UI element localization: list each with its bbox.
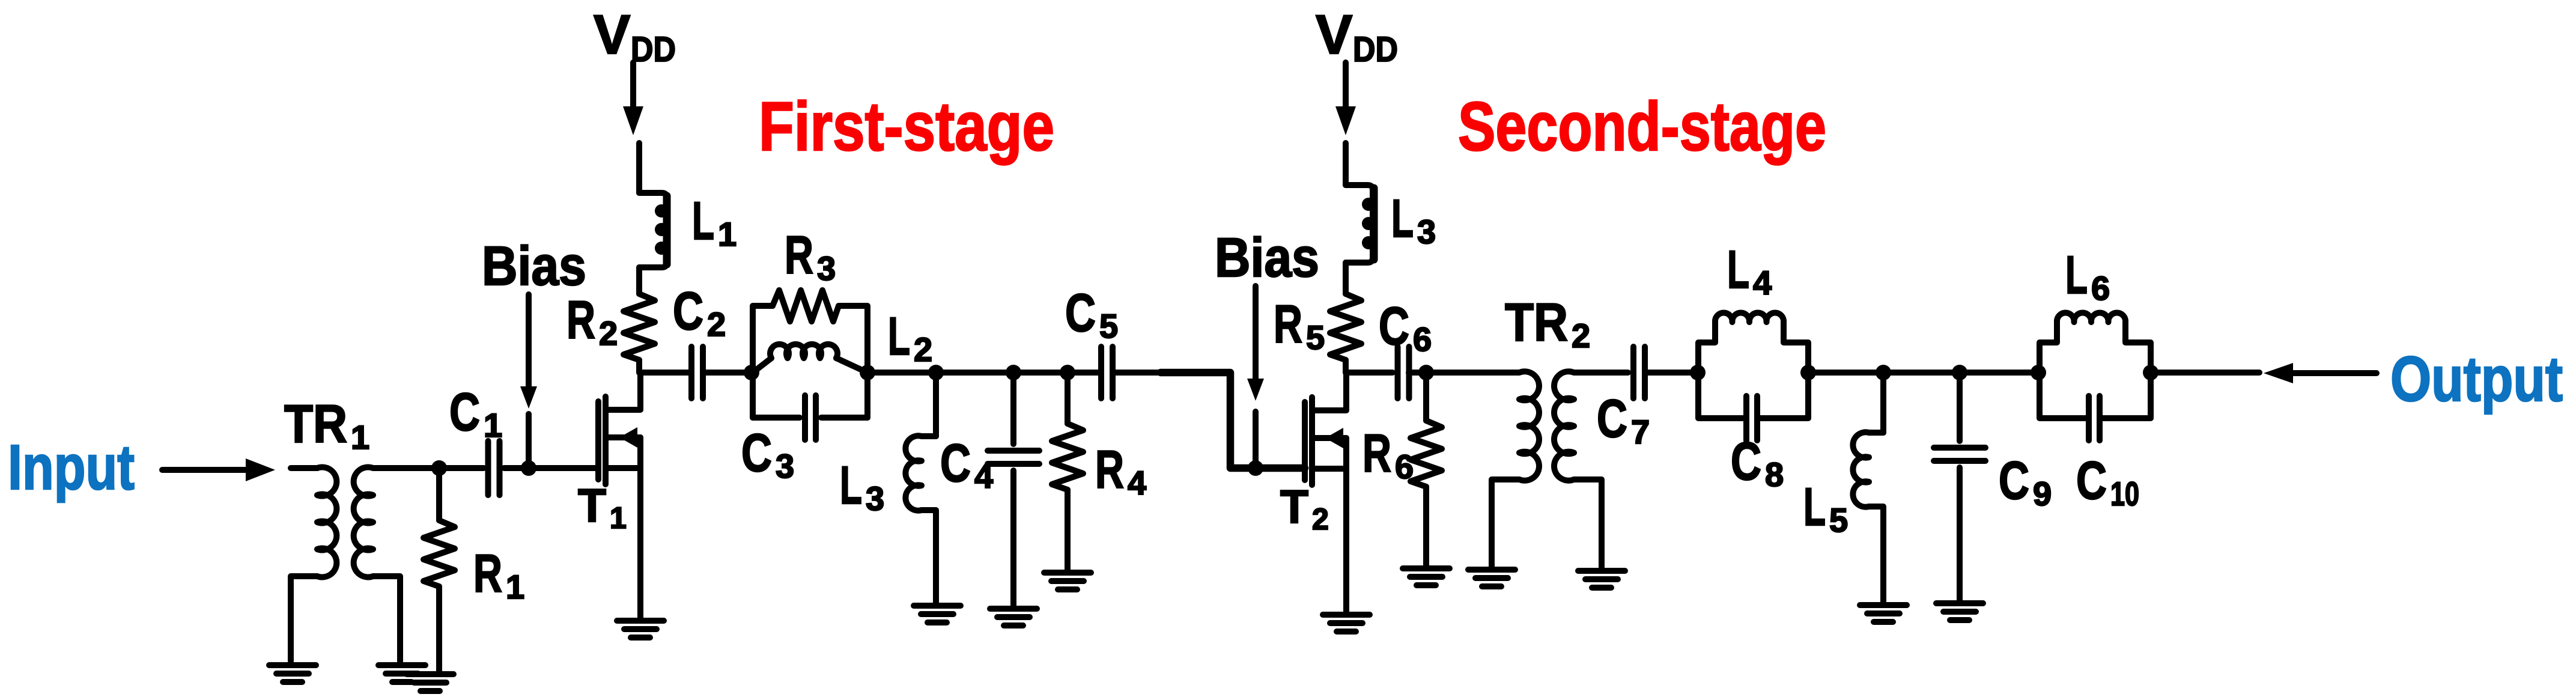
ground L5 [1860,605,1907,622]
svg-text:3: 3 [776,447,794,485]
svg-text:5: 5 [1306,318,1325,356]
svg-text:R: R [473,543,502,603]
node C9 junction [1952,365,1967,380]
inductor L1 label [692,190,737,253]
svg-text:1: 1 [351,418,369,456]
capacitor C2 [691,347,703,398]
svg-text:3: 3 [817,249,836,287]
inductor L6 label [2065,245,2110,307]
tank3 bottom right [2103,373,2151,418]
input arrow [162,458,275,481]
wire L1 to R2 [636,267,642,294]
capacitor C6 label [1379,296,1432,358]
capacitor C10 [2089,396,2100,440]
svg-text:9: 9 [2033,475,2052,513]
bias arrow 1 [520,294,537,409]
svg-text:3: 3 [1417,213,1436,251]
capacitor C7 label [1597,388,1650,451]
svg-text:L: L [1727,239,1749,299]
transformer TR2 primary winding [1492,371,1539,567]
resistor R3 [773,290,839,321]
inductor L4 [1715,313,1784,322]
capacitor C5 [1101,347,1113,398]
svg-text:1: 1 [610,501,627,535]
resistor R6 label [1362,423,1414,485]
node bias junction 1 [521,460,536,476]
wire VDD1 to L1 [636,143,642,193]
svg-text:First-stage: First-stage [759,88,1054,165]
transformer TR1 label [284,394,369,456]
ground TR1 primary [269,665,316,682]
ground L3 shunt [914,606,961,622]
resistor R2 label [567,290,618,352]
svg-text:L: L [692,190,714,251]
ground TR1 secondary [378,665,425,682]
wire bias stub 2 [1253,412,1259,468]
svg-text:6: 6 [1395,448,1414,485]
svg-text:1: 1 [506,568,524,606]
node tank2 right [1800,365,1816,380]
svg-text:C: C [1731,431,1761,491]
svg-text:Bias: Bias [482,236,586,297]
svg-text:L: L [840,455,862,515]
svg-text:V: V [594,4,630,65]
svg-text:C: C [449,382,480,442]
label Second-stage [1458,88,1826,165]
svg-text:1: 1 [718,215,737,253]
ground TR2 primary [1468,570,1515,586]
transistor T2 [1305,373,1346,612]
tank3 frame left [2040,322,2057,373]
node R4 junction [1060,365,1075,380]
svg-text:DD: DD [1353,30,1398,69]
transformer TR1 secondary winding [354,467,439,662]
capacitor C1 label [449,382,502,444]
wire VDD2 to L3 [1343,143,1349,185]
power VDD1 label [594,4,676,69]
svg-text:C: C [1597,388,1627,448]
resistor R5 label [1274,294,1325,356]
node A junction [431,460,447,476]
svg-text:C: C [1065,282,1096,342]
svg-text:V: V [1316,4,1352,65]
tank1 bottom right wire [821,415,867,421]
wire tank2 to tank3 [1808,370,2038,376]
wire C2 to tank1 [706,370,752,376]
wire drain rail 1 [639,370,688,376]
tank3 bottom left [2040,373,2086,418]
svg-text:C: C [673,281,703,341]
svg-text:C: C [2076,450,2107,510]
transformer TR2 secondary winding [1554,371,1628,568]
resistor R1 label [473,543,524,606]
node tank1 right [860,365,875,380]
svg-text:5: 5 [1099,307,1118,345]
capacitor C1 [488,441,500,495]
svg-text:2: 2 [707,305,726,343]
tank2 frame left [1698,322,1715,373]
ground C9 [1936,603,1983,620]
inductor L4 label [1727,239,1772,302]
svg-text:Second-stage: Second-stage [1458,88,1826,165]
inductor L3 shunt label [840,455,884,517]
svg-text:TR: TR [1505,292,1568,352]
transistor T1 label [578,479,627,535]
ground R4 [1044,573,1091,589]
svg-text:3: 3 [866,479,884,517]
wire C6 to TR2 [1409,370,1514,376]
svg-text:C: C [741,422,772,482]
ground T2 [1323,615,1370,632]
node C4 junction [1006,365,1021,380]
svg-text:7: 7 [1631,413,1650,451]
node tank1 left [744,365,759,380]
svg-text:R: R [567,290,595,350]
wire C5 to gate2 [1113,373,1305,468]
svg-text:6: 6 [1413,320,1432,358]
svg-text:TR: TR [284,394,347,454]
svg-text:T: T [1280,480,1308,533]
tank1 frame right [839,306,867,418]
capacitor C9 [1934,373,1985,600]
wire L3b to R5 [1343,263,1349,294]
svg-text:L: L [1803,476,1826,537]
node label Input [8,432,135,503]
wire tank1 to C5 [867,370,1101,376]
svg-text:R: R [1095,439,1124,499]
node L3 junction [928,365,944,380]
resistor R6 [1411,373,1442,565]
power VDD1 arrow [623,62,643,135]
capacitor C10 label [2076,450,2139,513]
svg-text:10: 10 [2110,475,2139,513]
node R6 junction [1418,365,1434,380]
svg-text:5: 5 [1829,501,1848,539]
power VDD2 arrow [1335,62,1356,135]
resistor R4 label [1095,439,1146,502]
capacitor C8 label [1731,431,1784,493]
bias label Bias1 [482,236,586,297]
tank2 bottom right [1760,373,1808,418]
svg-text:6: 6 [2091,269,2110,307]
wire C7 to tank2 [1645,370,1698,376]
resistor R1 [424,468,455,671]
inductor L6 [2057,313,2125,322]
inductor L3b [1346,185,1375,263]
node tank3 left [2031,365,2046,380]
capacitor C4 [988,373,1039,606]
power VDD2 label [1316,4,1398,69]
bias label Bias2 [1215,227,1319,288]
node label Output [2390,344,2563,415]
node tank2 left [1690,365,1706,380]
svg-text:R: R [1362,423,1391,483]
ground C4 [990,609,1037,625]
svg-text:2: 2 [914,330,932,368]
wire C1 to gate [504,465,598,471]
wire to output [2151,370,2259,376]
node label L2 [888,306,932,368]
ground T1 [617,621,664,638]
svg-text:4: 4 [1128,464,1146,502]
svg-text:DD: DD [631,30,676,69]
label First-stage [759,88,1054,165]
wire TR1 to C1 [439,465,484,471]
svg-text:L: L [888,306,910,366]
svg-text:R: R [785,225,813,285]
tank1 bottom left wire [753,415,800,421]
inductor L3b label [1391,188,1436,251]
svg-text:C: C [1379,296,1409,356]
svg-text:4: 4 [1753,264,1772,302]
output arrow [2264,363,2377,383]
svg-text:4: 4 [974,457,993,495]
capacitor C3 label [741,422,794,485]
resistor R3 label [785,225,836,287]
svg-text:T: T [578,479,606,532]
svg-text:C: C [940,433,971,493]
svg-text:2: 2 [1312,502,1329,536]
transistor T1 [598,373,640,618]
tank1 inductor [753,344,867,373]
svg-text:2: 2 [1572,317,1590,355]
svg-text:L: L [2065,245,2088,305]
ground R1 [407,674,454,691]
svg-text:8: 8 [1765,455,1784,493]
tank2 bottom left [1698,373,1743,418]
ground R6 [1403,568,1450,585]
inductor L3 shunt [905,373,936,603]
wire bias stub 1 [526,414,532,468]
transformer TR1 primary winding [291,467,336,661]
ground TR2 secondary [1578,571,1625,588]
capacitor C6 [1398,347,1409,398]
svg-text:L: L [1391,188,1414,248]
capacitor C2 label [673,281,726,343]
resistor R5 [1330,294,1361,373]
svg-text:2: 2 [599,314,618,352]
svg-text:Bias: Bias [1215,227,1319,288]
resistor R2 [624,294,655,373]
capacitor C9 label [1999,450,2052,513]
svg-text:Input: Input [8,432,135,503]
capacitor C7 [1633,347,1645,398]
tank1 frame left [753,306,773,418]
capacitor C5 label [1065,282,1118,345]
tank2 frame right [1784,322,1808,373]
capacitor C3 [805,395,816,440]
inductor L5 label [1803,476,1848,539]
wire drain rail 2 [1346,370,1393,376]
bias arrow 2 [1247,286,1264,401]
transistor T2 label [1280,480,1329,536]
node L5 junction [1876,365,1891,380]
resistor R4 [1052,373,1083,570]
tank3 frame right [2125,322,2151,373]
svg-text:R: R [1274,294,1302,354]
svg-text:Output: Output [2390,344,2563,415]
node bias junction 2 [1248,460,1263,476]
svg-text:C: C [1999,450,2029,510]
transformer TR2 label [1505,292,1590,355]
capacitor C4 label [940,433,993,495]
node tank3 right [2143,365,2158,380]
inductor L5 [1853,373,1883,602]
capacitor C8 [1746,396,1757,440]
inductor L1 [639,193,668,267]
